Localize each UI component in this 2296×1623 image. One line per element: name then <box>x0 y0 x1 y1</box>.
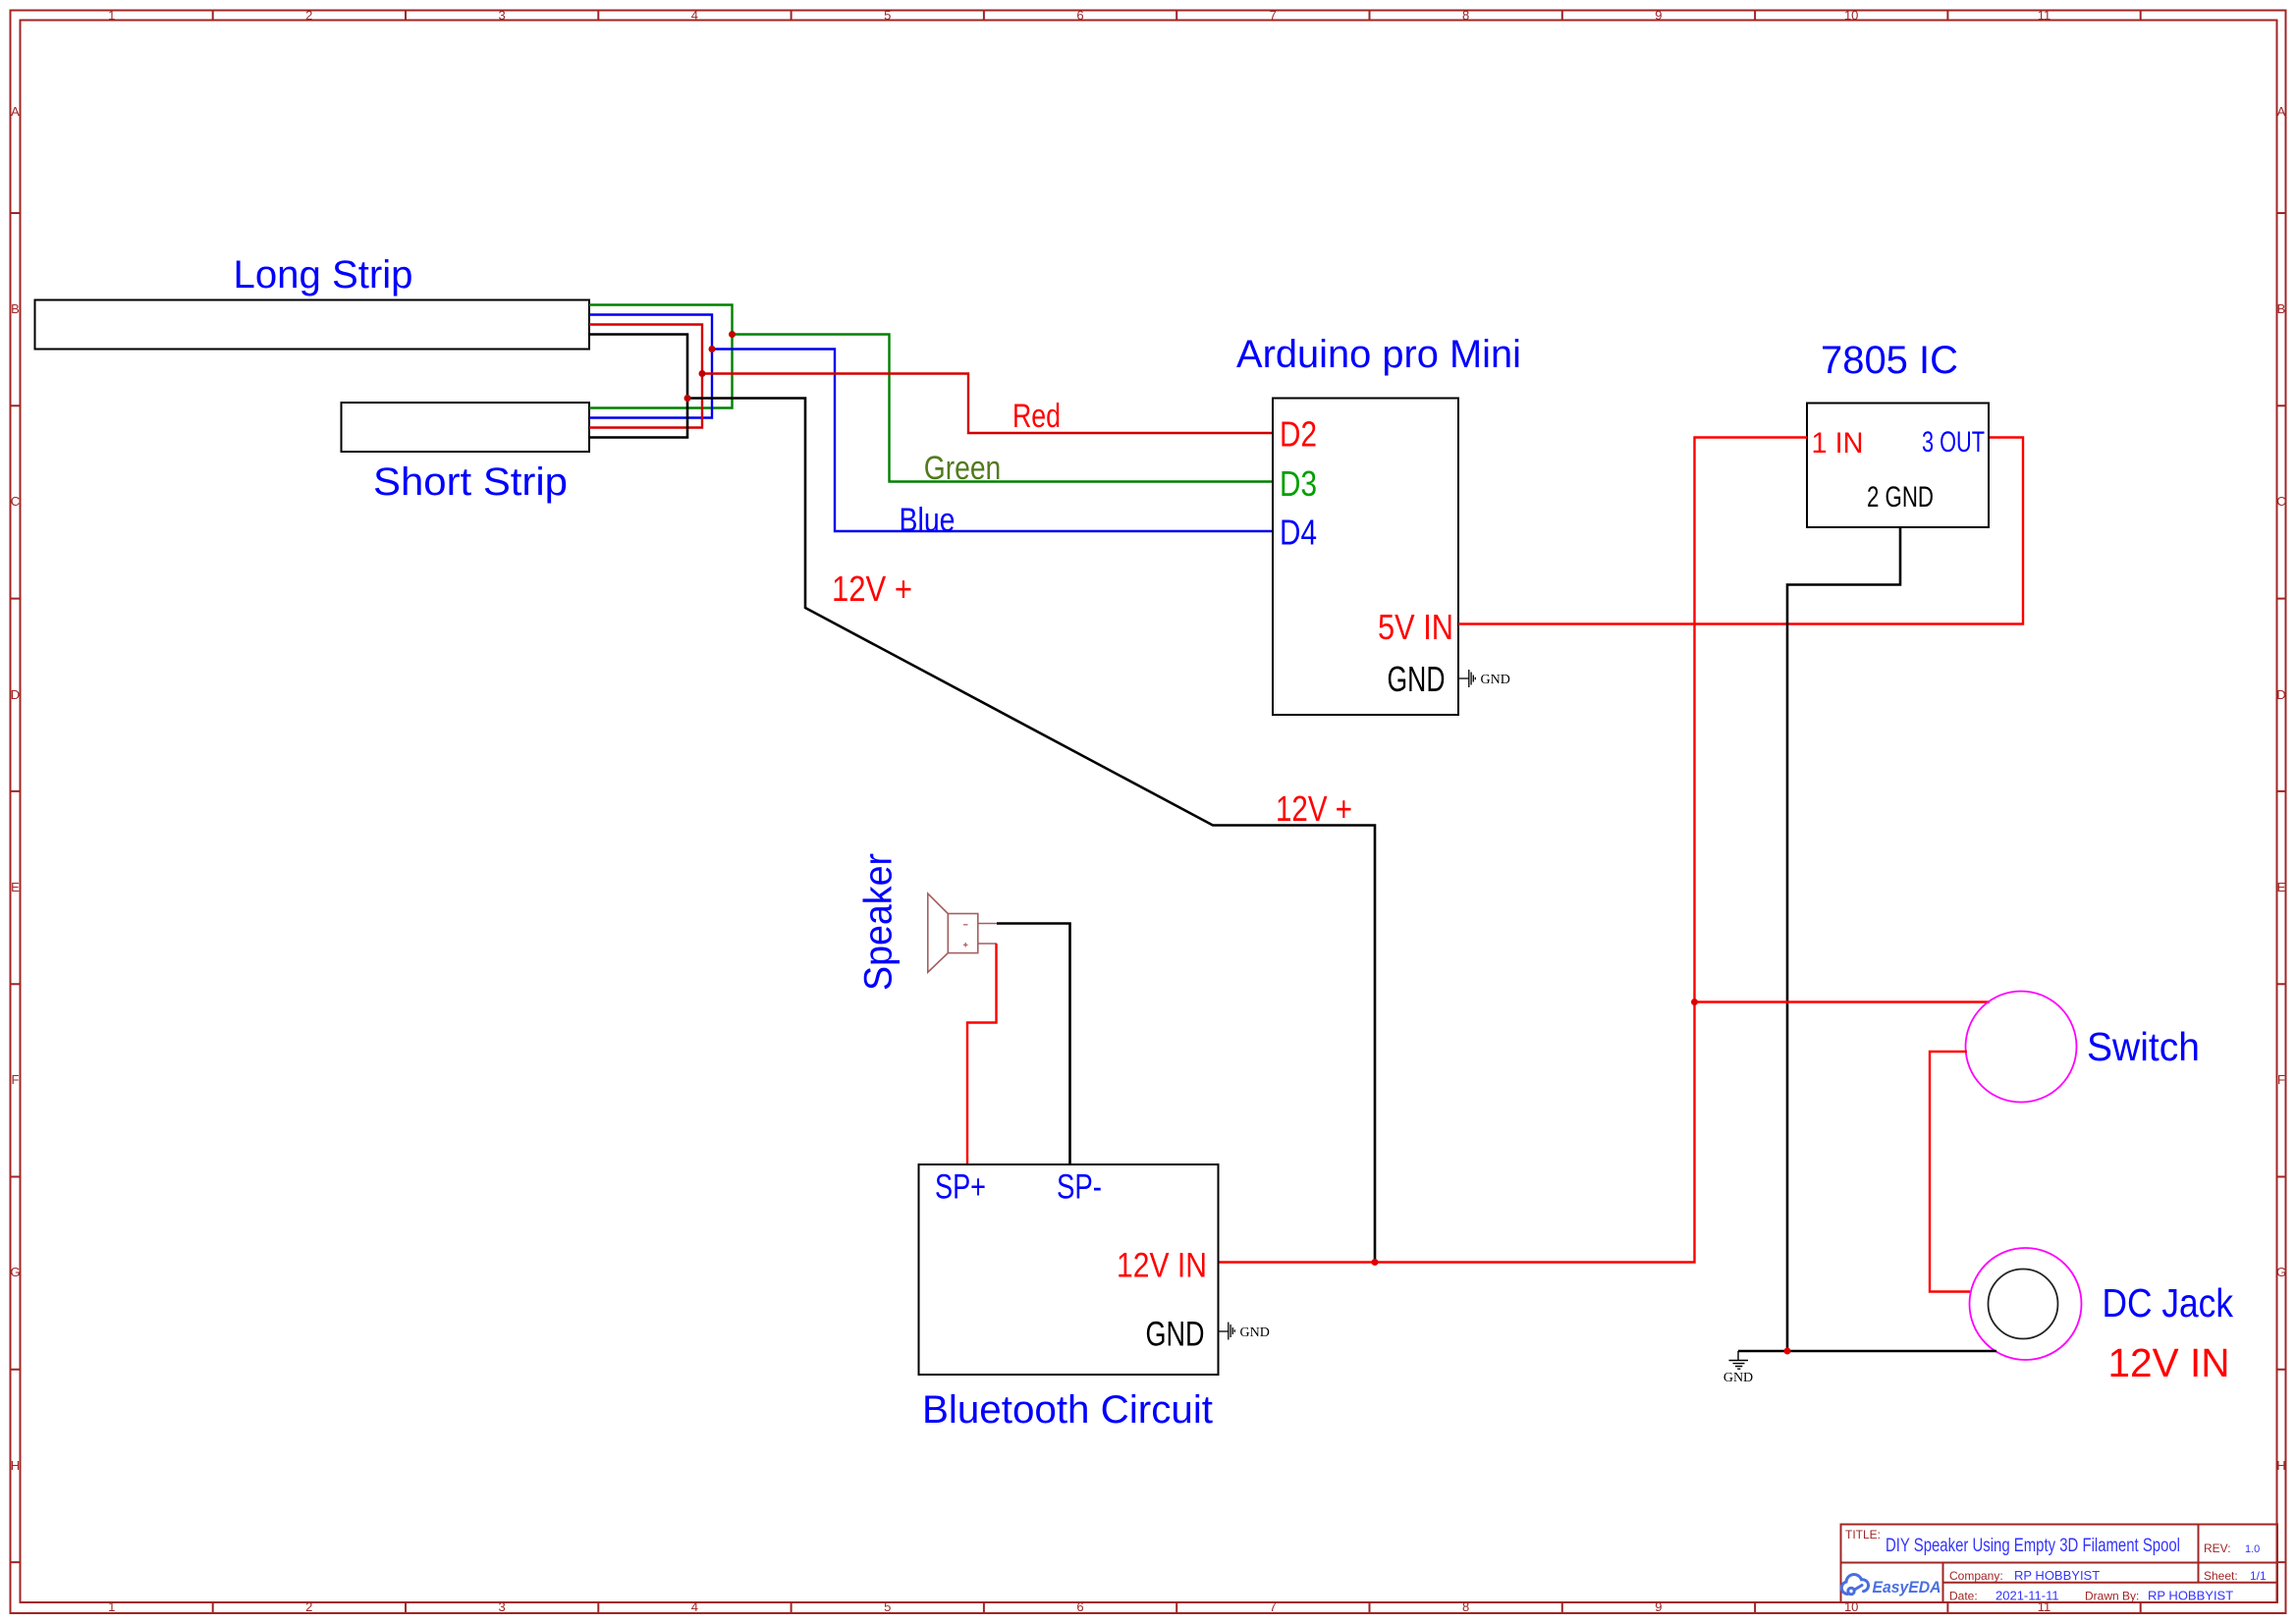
svg-text:GND: GND <box>1388 659 1446 699</box>
ground: earth GND <box>1729 1351 1749 1369</box>
svg-text:Blue: Blue <box>900 502 956 539</box>
LED strip: Short Strip <box>342 403 590 452</box>
speaker polarity marks <box>963 925 968 947</box>
svg-text:RP HOBBYIST: RP HOBBYIST <box>2014 1568 2100 1583</box>
svg-text:E: E <box>2277 880 2286 894</box>
wire: red strip bus <box>589 325 702 428</box>
svg-text:TITLE:: TITLE: <box>1845 1528 1881 1542</box>
svg-text:12V +: 12V + <box>1276 788 1352 829</box>
svg-text:7805 IC: 7805 IC <box>1821 339 1958 382</box>
svg-text:F: F <box>12 1072 20 1087</box>
wire: switch to DC jack <box>1930 1052 1970 1292</box>
wire: 7805 GND down <box>1787 527 1900 1351</box>
svg-text:G: G <box>10 1265 20 1279</box>
module: Bluetooth Circuit <box>919 1164 1219 1375</box>
svg-text:1.0: 1.0 <box>2245 1543 2260 1555</box>
svg-text:Arduino pro Mini: Arduino pro Mini <box>1236 333 1521 376</box>
svg-text:5V IN: 5V IN <box>1378 607 1453 647</box>
svg-text:RP HOBBYIST: RP HOBBYIST <box>2148 1589 2233 1603</box>
svg-text:Long Strip: Long Strip <box>234 253 413 297</box>
svg-text:B: B <box>11 301 20 316</box>
svg-text:D: D <box>2276 687 2285 702</box>
svg-text:11: 11 <box>2038 8 2051 23</box>
junction: red <box>699 370 706 377</box>
wire: speaker SP- black <box>997 924 1070 1165</box>
svg-text:SP+: SP+ <box>935 1168 986 1207</box>
svg-text:8: 8 <box>1462 1599 1469 1614</box>
svg-text:8: 8 <box>1462 8 1469 23</box>
junction: green <box>729 331 736 338</box>
svg-text:Bluetooth Circuit: Bluetooth Circuit <box>922 1388 1213 1432</box>
svg-text:1: 1 <box>108 1599 115 1614</box>
svg-text:12V +: 12V + <box>832 568 912 609</box>
svg-text:7: 7 <box>1270 1599 1277 1614</box>
wire: blue strip bus <box>589 315 712 418</box>
svg-text:4: 4 <box>691 1599 698 1614</box>
speaker SPK1 <box>928 893 997 972</box>
svg-text:C: C <box>11 494 20 509</box>
wire: 12V rail (1 IN down to 12V IN) <box>1219 438 1808 1263</box>
svg-text:F: F <box>2277 1072 2285 1087</box>
svg-text:Speaker: Speaker <box>857 853 901 991</box>
svg-text:G: G <box>2276 1265 2286 1279</box>
svg-text:H: H <box>2276 1458 2285 1473</box>
svg-text:D4: D4 <box>1280 513 1317 553</box>
svg-text:5: 5 <box>884 8 891 23</box>
component: DC Jack inner <box>1989 1270 2058 1339</box>
svg-text:Short Strip: Short Strip <box>373 460 568 504</box>
wire: speaker SP+ red <box>967 944 997 1164</box>
wire: black strip bus <box>589 335 687 438</box>
svg-text:GND: GND <box>1146 1316 1205 1354</box>
svg-text:12V IN: 12V IN <box>2108 1340 2230 1385</box>
wire: green branch to D3 <box>733 335 1274 482</box>
svg-text:GND: GND <box>1240 1325 1270 1340</box>
svg-text:1 IN: 1 IN <box>1812 427 1864 460</box>
svg-text:2021-11-11: 2021-11-11 <box>1995 1589 2059 1603</box>
junction: black <box>684 395 691 402</box>
svg-text:E: E <box>11 880 20 894</box>
title block <box>1841 1525 2278 1603</box>
wire: blue branch to D4 <box>712 350 1273 532</box>
svg-text:Green: Green <box>924 450 1002 487</box>
svg-text:Drawn By:: Drawn By: <box>2085 1590 2139 1603</box>
component: Switch (magenta circle) <box>1966 992 2077 1103</box>
svg-text:EasyEDA: EasyEDA <box>1873 1578 1941 1596</box>
svg-text:DIY Speaker Using Empty 3D Fil: DIY Speaker Using Empty 3D Filament Spoo… <box>1886 1536 2180 1556</box>
svg-text:B: B <box>2277 301 2286 316</box>
svg-text:C: C <box>2276 494 2285 509</box>
IC: 7805 <box>1807 404 1989 528</box>
svg-text:10: 10 <box>1844 8 1858 23</box>
svg-text:A: A <box>2277 104 2286 119</box>
LED strip: Long Strip <box>35 300 590 350</box>
svg-text:3: 3 <box>498 1599 505 1614</box>
svg-text:4: 4 <box>691 8 698 23</box>
svg-text:D: D <box>11 687 20 702</box>
junction: blue <box>709 346 716 352</box>
svg-text:1/1: 1/1 <box>2250 1569 2267 1583</box>
svg-text:9: 9 <box>1655 8 1662 23</box>
svg-text:Company:: Company: <box>1949 1569 2003 1583</box>
svg-text:3: 3 <box>498 8 505 23</box>
svg-text:Sheet:: Sheet: <box>2204 1569 2238 1583</box>
svg-text:H: H <box>11 1458 20 1473</box>
svg-text:DC Jack: DC Jack <box>2103 1280 2234 1325</box>
svg-text:REV:: REV: <box>2204 1542 2231 1555</box>
svg-text:9: 9 <box>1655 1599 1662 1614</box>
junction: ground bus <box>1784 1348 1791 1355</box>
wire: ground bus to DC jack <box>1738 1350 1996 1353</box>
svg-text:SP-: SP- <box>1057 1168 1102 1207</box>
wire: branch to switch <box>1695 1001 1991 1002</box>
svg-text:7: 7 <box>1270 8 1277 23</box>
svg-text:A: A <box>11 104 20 119</box>
ground: arduino GND flag <box>1458 670 1475 687</box>
EasyEDA logo <box>1841 1575 1868 1595</box>
wire: green strip bus <box>589 305 733 408</box>
svg-text:1: 1 <box>108 8 115 23</box>
svg-text:Date:: Date: <box>1949 1590 1978 1603</box>
svg-text:6: 6 <box>1076 8 1083 23</box>
svg-text:GND: GND <box>1723 1371 1753 1385</box>
svg-text:5: 5 <box>884 1599 891 1614</box>
ground: bluetooth GND flag <box>1219 1323 1235 1340</box>
svg-text:D2: D2 <box>1280 414 1317 455</box>
svg-text:12V IN: 12V IN <box>1117 1247 1207 1285</box>
svg-text:3 OUT: 3 OUT <box>1922 426 1985 459</box>
wire: red branch to D2 <box>702 374 1273 434</box>
svg-text:GND: GND <box>1481 673 1510 687</box>
svg-text:2: 2 <box>305 8 312 23</box>
svg-text:6: 6 <box>1076 1599 1083 1614</box>
svg-text:Red: Red <box>1012 398 1061 435</box>
svg-text:D3: D3 <box>1280 463 1317 504</box>
svg-text:2 GND: 2 GND <box>1867 481 1934 514</box>
svg-text:Switch: Switch <box>2087 1024 2200 1069</box>
svg-text:2: 2 <box>305 1599 312 1614</box>
component: DC Jack outer <box>1970 1248 2082 1360</box>
wire: black 12V+ feed <box>687 399 1375 1263</box>
junction: switch branch <box>1691 999 1698 1005</box>
junction: 12V IN node <box>1372 1259 1379 1266</box>
IC: Arduino pro Mini <box>1273 399 1458 716</box>
wire: 5V IN to 7805 OUT <box>1458 438 2023 624</box>
